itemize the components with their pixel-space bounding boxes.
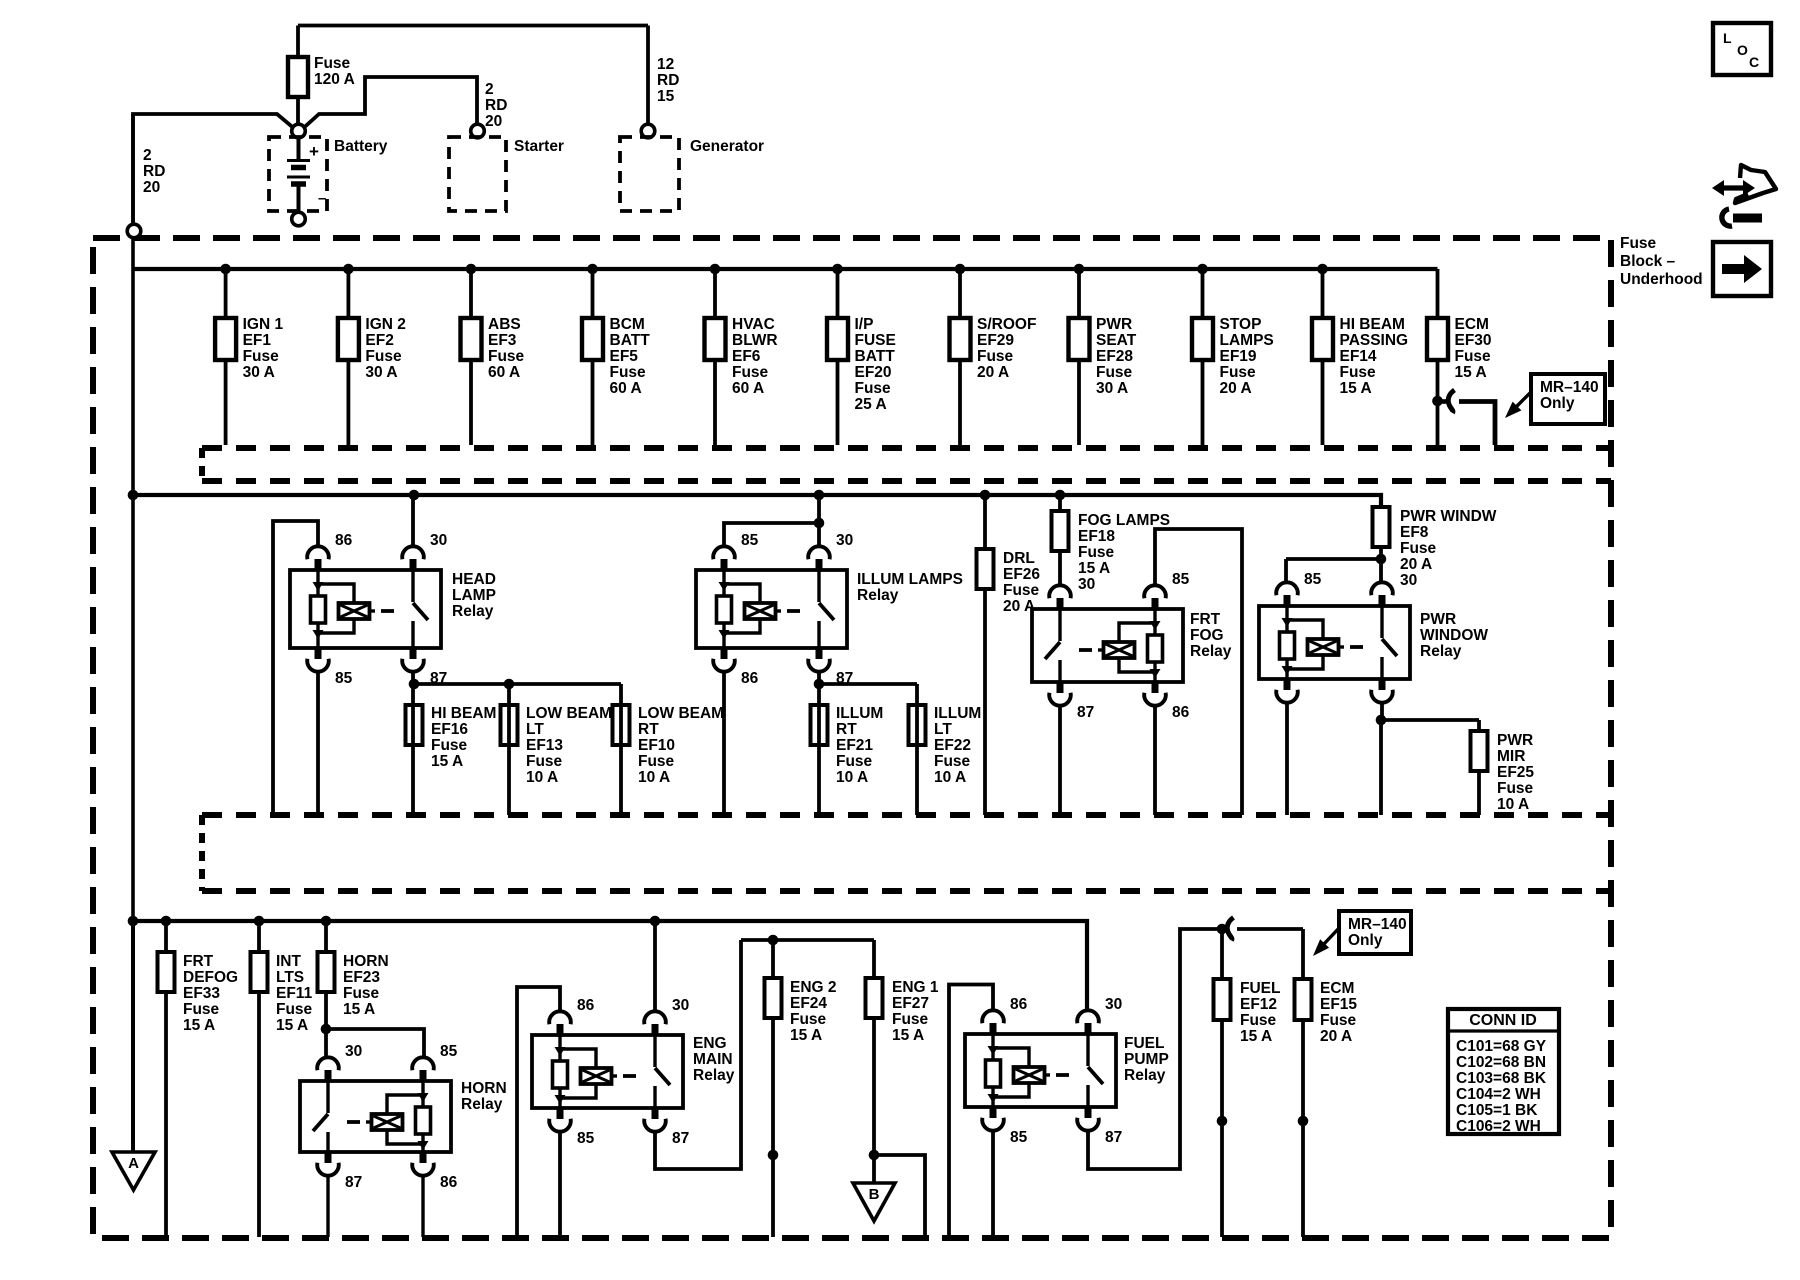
svg-text:20 A: 20 A: [1400, 556, 1432, 573]
svg-text:C102=68 BN: C102=68 BN: [1456, 1054, 1546, 1071]
svg-text:C105=1 BK: C105=1 BK: [1456, 1102, 1538, 1119]
svg-text:BCM: BCM: [610, 316, 645, 333]
svg-text:A: A: [128, 1155, 139, 1172]
svg-text:LT: LT: [934, 721, 952, 738]
svg-text:10 A: 10 A: [934, 769, 966, 786]
svg-text:RD: RD: [485, 97, 507, 114]
svg-text:HI BEAM: HI BEAM: [431, 705, 496, 722]
svg-text:O: O: [1737, 42, 1748, 58]
svg-text:Fuse: Fuse: [1455, 348, 1492, 365]
svg-text:Fuse: Fuse: [836, 753, 873, 770]
svg-text:HORN: HORN: [343, 953, 389, 970]
svg-text:30: 30: [836, 532, 853, 549]
svg-text:15 A: 15 A: [790, 1027, 822, 1044]
svg-text:15 A: 15 A: [343, 1001, 375, 1018]
svg-text:Fuse: Fuse: [790, 1011, 827, 1028]
svg-text:Block –: Block –: [1620, 253, 1676, 270]
svg-text:86: 86: [335, 532, 353, 549]
svg-text:EF11: EF11: [276, 985, 313, 1002]
svg-text:INT: INT: [276, 953, 302, 970]
svg-text:Fuse: Fuse: [488, 348, 525, 365]
svg-text:EF24: EF24: [790, 995, 827, 1012]
svg-text:86: 86: [1172, 704, 1190, 721]
svg-text:FUEL: FUEL: [1240, 980, 1280, 997]
svg-text:DEFOG: DEFOG: [183, 969, 238, 986]
svg-text:PWR WINDW: PWR WINDW: [1400, 508, 1497, 525]
svg-text:30: 30: [1400, 572, 1417, 589]
svg-text:Fuse: Fuse: [365, 348, 402, 365]
svg-text:EF8: EF8: [1400, 524, 1429, 541]
svg-text:Underhood: Underhood: [1620, 271, 1703, 288]
svg-text:85: 85: [335, 670, 353, 687]
svg-text:EF19: EF19: [1220, 348, 1257, 365]
svg-text:30: 30: [345, 1043, 362, 1060]
svg-text:FOG: FOG: [1190, 627, 1224, 644]
svg-text:IGN 2: IGN 2: [365, 316, 405, 333]
svg-text:B: B: [869, 1186, 880, 1203]
svg-text:ENG 2: ENG 2: [790, 979, 837, 996]
svg-text:25 A: 25 A: [855, 396, 887, 413]
svg-text:RD: RD: [143, 163, 165, 180]
svg-text:86: 86: [1010, 996, 1028, 1013]
svg-text:86: 86: [741, 670, 759, 687]
svg-text:30: 30: [430, 532, 447, 549]
svg-text:L: L: [1723, 30, 1732, 46]
svg-text:10 A: 10 A: [836, 769, 868, 786]
svg-text:EF15: EF15: [1320, 996, 1357, 1013]
svg-text:86: 86: [577, 997, 595, 1014]
svg-text:EF22: EF22: [934, 737, 971, 754]
svg-text:CONN ID: CONN ID: [1469, 1012, 1537, 1029]
svg-text:EF26: EF26: [1003, 566, 1040, 583]
svg-text:10 A: 10 A: [526, 769, 558, 786]
svg-text:Relay: Relay: [1420, 643, 1462, 660]
svg-text:LAMPS: LAMPS: [1220, 332, 1274, 349]
svg-text:Fuse: Fuse: [343, 985, 380, 1002]
svg-text:RD: RD: [657, 72, 679, 89]
svg-text:15 A: 15 A: [1078, 560, 1110, 577]
svg-text:C103=68 BK: C103=68 BK: [1456, 1070, 1547, 1087]
svg-text:C106=2 WH: C106=2 WH: [1456, 1118, 1541, 1135]
svg-text:120 A: 120 A: [314, 71, 355, 88]
svg-text:30: 30: [1105, 996, 1122, 1013]
svg-text:MR–140: MR–140: [1540, 379, 1599, 396]
svg-text:30 A: 30 A: [1096, 380, 1128, 397]
svg-text:Fuse: Fuse: [1620, 235, 1657, 252]
svg-text:15 A: 15 A: [431, 753, 463, 770]
svg-text:Fuse: Fuse: [977, 348, 1014, 365]
svg-text:EF13: EF13: [526, 737, 563, 754]
svg-text:12: 12: [657, 56, 674, 73]
svg-text:Fuse: Fuse: [1320, 1012, 1357, 1029]
svg-text:Relay: Relay: [857, 587, 899, 604]
svg-text:30: 30: [672, 997, 689, 1014]
svg-text:Fuse: Fuse: [431, 737, 468, 754]
svg-text:Fuse: Fuse: [638, 753, 675, 770]
svg-text:BATT: BATT: [610, 332, 651, 349]
svg-text:HVAC: HVAC: [732, 316, 775, 333]
svg-text:Relay: Relay: [1124, 1067, 1166, 1084]
svg-text:Fuse: Fuse: [1400, 540, 1437, 557]
svg-text:Fuse: Fuse: [1240, 1012, 1277, 1029]
svg-text:FRT: FRT: [183, 953, 214, 970]
svg-text:Fuse: Fuse: [1096, 364, 1133, 381]
svg-text:15: 15: [657, 88, 675, 105]
svg-text:S/ROOF: S/ROOF: [977, 316, 1036, 333]
svg-text:2: 2: [143, 147, 152, 164]
svg-text:60 A: 60 A: [610, 380, 642, 397]
svg-text:PWR: PWR: [1420, 611, 1456, 628]
svg-text:PWR: PWR: [1096, 316, 1132, 333]
svg-text:20: 20: [485, 113, 502, 130]
svg-text:EF14: EF14: [1340, 348, 1377, 365]
svg-text:C101=68 GY: C101=68 GY: [1456, 1038, 1547, 1055]
svg-text:85: 85: [1010, 1129, 1028, 1146]
svg-text:MR–140: MR–140: [1348, 916, 1407, 933]
svg-text:85: 85: [1304, 571, 1322, 588]
svg-text:FUSE: FUSE: [855, 332, 896, 349]
svg-text:EF27: EF27: [892, 995, 929, 1012]
svg-text:10 A: 10 A: [638, 769, 670, 786]
svg-text:85: 85: [741, 532, 759, 549]
svg-text:EF25: EF25: [1497, 764, 1534, 781]
svg-text:15 A: 15 A: [276, 1017, 308, 1034]
svg-text:C104=2 WH: C104=2 WH: [1456, 1086, 1541, 1103]
svg-text:LTS: LTS: [276, 969, 304, 986]
svg-text:HI BEAM: HI BEAM: [1340, 316, 1405, 333]
svg-text:LAMP: LAMP: [452, 587, 496, 604]
svg-text:Fuse: Fuse: [855, 380, 892, 397]
svg-text:EF1: EF1: [243, 332, 272, 349]
svg-text:EF21: EF21: [836, 737, 873, 754]
svg-text:BLWR: BLWR: [732, 332, 778, 349]
svg-text:ENG 1: ENG 1: [892, 979, 939, 996]
svg-text:PUMP: PUMP: [1124, 1051, 1169, 1068]
svg-text:Fuse: Fuse: [1497, 780, 1534, 797]
svg-text:86: 86: [440, 1174, 458, 1191]
svg-text:Battery: Battery: [334, 138, 388, 155]
svg-text:Relay: Relay: [461, 1096, 503, 1113]
svg-text:MAIN: MAIN: [693, 1051, 733, 1068]
svg-text:EF12: EF12: [1240, 996, 1277, 1013]
svg-text:87: 87: [672, 1130, 689, 1147]
svg-text:30 A: 30 A: [243, 364, 275, 381]
svg-text:EF20: EF20: [855, 364, 892, 381]
svg-text:LT: LT: [526, 721, 544, 738]
svg-text:Fuse: Fuse: [243, 348, 280, 365]
svg-text:ILLUM: ILLUM: [934, 705, 981, 722]
svg-text:85: 85: [440, 1043, 458, 1060]
svg-text:10 A: 10 A: [1497, 796, 1529, 813]
svg-text:ILLUM: ILLUM: [836, 705, 883, 722]
svg-text:87: 87: [345, 1174, 362, 1191]
svg-text:Fuse: Fuse: [934, 753, 971, 770]
svg-text:Fuse: Fuse: [1340, 364, 1377, 381]
svg-text:20 A: 20 A: [1320, 1028, 1352, 1045]
svg-text:Generator: Generator: [690, 138, 764, 155]
svg-text:15 A: 15 A: [1455, 364, 1487, 381]
svg-text:WINDOW: WINDOW: [1420, 627, 1488, 644]
svg-text:PWR: PWR: [1497, 732, 1533, 749]
svg-text:15 A: 15 A: [892, 1027, 924, 1044]
svg-text:Fuse: Fuse: [610, 364, 647, 381]
svg-text:BATT: BATT: [855, 348, 896, 365]
svg-text:RT: RT: [638, 721, 659, 738]
svg-text:LOW BEAM: LOW BEAM: [638, 705, 724, 722]
svg-text:DRL: DRL: [1003, 550, 1035, 567]
svg-text:EF3: EF3: [488, 332, 517, 349]
svg-text:ILLUM LAMPS: ILLUM LAMPS: [857, 571, 963, 588]
svg-text:Relay: Relay: [693, 1067, 735, 1084]
svg-text:15 A: 15 A: [1340, 380, 1372, 397]
svg-text:85: 85: [577, 1130, 595, 1147]
svg-text:EF23: EF23: [343, 969, 380, 986]
svg-text:FRT: FRT: [1190, 611, 1221, 628]
svg-text:+: +: [309, 142, 319, 161]
svg-text:ECM: ECM: [1455, 316, 1489, 333]
svg-text:C: C: [1749, 54, 1759, 70]
svg-text:EF16: EF16: [431, 721, 468, 738]
svg-text:STOP: STOP: [1220, 316, 1262, 333]
svg-text:30: 30: [1078, 576, 1095, 593]
svg-text:Relay: Relay: [452, 603, 494, 620]
svg-text:Fuse: Fuse: [276, 1001, 313, 1018]
svg-text:EF10: EF10: [638, 737, 675, 754]
svg-text:Fuse: Fuse: [1078, 544, 1115, 561]
svg-text:PASSING: PASSING: [1340, 332, 1409, 349]
svg-text:ECM: ECM: [1320, 980, 1354, 997]
svg-text:EF30: EF30: [1455, 332, 1492, 349]
svg-text:EF33: EF33: [183, 985, 220, 1002]
svg-text:60 A: 60 A: [488, 364, 520, 381]
svg-text:IGN 1: IGN 1: [243, 316, 284, 333]
svg-text:87: 87: [1105, 1129, 1122, 1146]
svg-text:Fuse: Fuse: [183, 1001, 220, 1018]
svg-text:85: 85: [1172, 571, 1190, 588]
svg-text:Fuse: Fuse: [892, 1011, 929, 1028]
svg-text:I/P: I/P: [855, 316, 874, 333]
svg-text:EF28: EF28: [1096, 348, 1133, 365]
svg-text:Relay: Relay: [1190, 643, 1232, 660]
svg-text:Only: Only: [1348, 932, 1383, 949]
svg-text:HEAD: HEAD: [452, 571, 496, 588]
svg-text:–: –: [318, 190, 326, 207]
svg-text:Fuse: Fuse: [1003, 582, 1040, 599]
svg-text:MIR: MIR: [1497, 748, 1525, 765]
svg-text:30 A: 30 A: [365, 364, 397, 381]
svg-text:Fuse: Fuse: [732, 364, 769, 381]
svg-text:FUEL: FUEL: [1124, 1035, 1164, 1052]
svg-text:20: 20: [143, 179, 160, 196]
svg-text:20 A: 20 A: [977, 364, 1009, 381]
svg-text:ABS: ABS: [488, 316, 521, 333]
svg-text:RT: RT: [836, 721, 857, 738]
svg-text:20 A: 20 A: [1220, 380, 1252, 397]
svg-text:Fuse: Fuse: [1220, 364, 1257, 381]
svg-text:EF2: EF2: [365, 332, 393, 349]
svg-text:2: 2: [485, 81, 494, 98]
svg-text:87: 87: [1077, 704, 1094, 721]
svg-text:ENG: ENG: [693, 1035, 727, 1052]
svg-text:EF6: EF6: [732, 348, 761, 365]
svg-text:Only: Only: [1540, 395, 1575, 412]
svg-text:Fuse: Fuse: [314, 55, 351, 72]
svg-text:15 A: 15 A: [183, 1017, 215, 1034]
svg-text:EF29: EF29: [977, 332, 1014, 349]
svg-text:Starter: Starter: [514, 138, 564, 155]
svg-text:EF18: EF18: [1078, 528, 1115, 545]
svg-text:Fuse: Fuse: [526, 753, 563, 770]
svg-text:HORN: HORN: [461, 1080, 507, 1097]
svg-text:EF5: EF5: [610, 348, 639, 365]
svg-text:LOW BEAM: LOW BEAM: [526, 705, 612, 722]
svg-text:15 A: 15 A: [1240, 1028, 1272, 1045]
svg-text:60 A: 60 A: [732, 380, 764, 397]
svg-text:SEAT: SEAT: [1096, 332, 1137, 349]
svg-text:FOG LAMPS: FOG LAMPS: [1078, 512, 1170, 529]
